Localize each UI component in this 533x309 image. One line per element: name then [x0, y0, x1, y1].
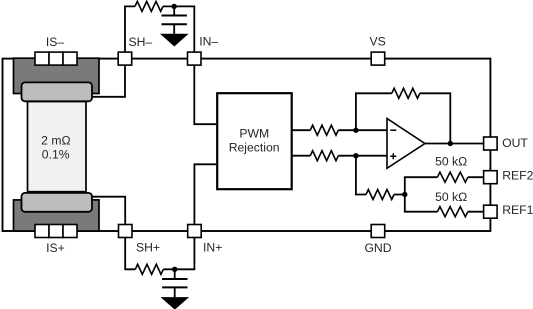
ground bottom filter — [162, 298, 188, 309]
wire IN+ pin to PWM block input — [194, 164, 216, 224]
pin label IS- — [46, 35, 65, 49]
junction node output — [448, 141, 453, 146]
svg-text:IN+: IN+ — [203, 240, 222, 254]
resistor R_sh- filter — [135, 1, 163, 11]
svg-text:50 kΩ: 50 kΩ — [435, 190, 467, 204]
svg-text:PWM: PWM — [239, 126, 269, 140]
junction node reference divider — [402, 192, 407, 197]
resistor 50 kOhm REF1 — [437, 207, 467, 217]
ground top filter — [161, 34, 187, 46]
junction node inverting input — [353, 128, 358, 133]
op-amp U2 — [387, 119, 425, 169]
wire R2 to op-amp non-inverting input — [338, 155, 387, 157]
device package outline — [3, 59, 491, 231]
pin OUT — [484, 137, 498, 150]
value label 50 kOhm REF1 — [435, 190, 467, 204]
pin IN+ — [188, 225, 202, 238]
pin label IS+ — [46, 241, 65, 255]
wire SH+ kelvin sense from shunt bottom bar to SH+ pin — [92, 197, 126, 238]
wire REF2 resistor to REF2 pin — [468, 176, 484, 178]
wire SH- kelvin sense from shunt top bar to SH- pin — [92, 52, 126, 97]
shunt top clamp — [14, 58, 100, 93]
pin IN- — [188, 52, 202, 65]
svg-text:GND: GND — [364, 241, 391, 255]
value label 50 kOhm REF2 — [435, 155, 467, 169]
capacitor C_in- — [162, 6, 187, 34]
svg-text:REF1: REF1 — [502, 203, 533, 217]
pin label SH+ — [136, 240, 160, 254]
pin SH- — [118, 52, 132, 65]
pin label OUT — [502, 136, 528, 150]
junction node non-inverting input — [353, 153, 358, 158]
pin IS- (three pads) — [35, 52, 77, 65]
pin IS+ (three pads) — [35, 225, 77, 238]
svg-text:IS+: IS+ — [46, 241, 65, 255]
pin label VS — [369, 34, 385, 48]
junction node top filter — [172, 4, 177, 9]
svg-text:IN–: IN– — [199, 35, 218, 49]
pin GND — [371, 225, 385, 238]
resistor input R2 (plus path) — [310, 151, 338, 161]
pin label IN+ — [203, 240, 222, 254]
pin label IN- — [199, 35, 218, 49]
wire R1 to op-amp inverting input — [338, 129, 387, 131]
pin label REF2 — [502, 169, 533, 183]
pin label GND — [364, 241, 391, 255]
svg-text:REF2: REF2 — [502, 169, 533, 183]
wire feedback to output node — [420, 93, 451, 143]
wire PWM output top to input resistor — [292, 129, 310, 131]
wire non-inverting input down to reference divider — [356, 156, 366, 195]
pin REF2 — [484, 171, 498, 184]
svg-text:0.1%: 0.1% — [42, 148, 70, 162]
wire feedback left rise — [356, 93, 392, 130]
wire divider node to REF2 resistor — [405, 177, 438, 194]
shunt top terminal bar — [22, 82, 93, 101]
wire PWM output bottom to input resistor — [292, 155, 310, 157]
svg-text:2 mΩ: 2 mΩ — [41, 133, 70, 147]
svg-text:50 kΩ: 50 kΩ — [435, 155, 467, 169]
wire filter resistor to IN- pin — [163, 6, 194, 52]
wire IN- pin to PWM block input — [194, 65, 216, 124]
resistor 50 kOhm REF2 — [437, 172, 467, 182]
pin REF1 — [484, 205, 498, 218]
pin SH+ — [119, 225, 133, 238]
PWM Rejection block U1 — [217, 93, 292, 189]
wire op-amp output to OUT pin — [425, 143, 484, 145]
shunt resistor element body R_shunt 2 mOhm — [28, 102, 87, 192]
resistor reference input R3 — [366, 190, 394, 200]
shunt bottom terminal bar — [22, 193, 93, 212]
svg-text:Rejection: Rejection — [229, 141, 280, 155]
svg-text:SH–: SH– — [129, 35, 153, 49]
wire divider node to REF1 resistor — [405, 195, 438, 212]
resistor feedback Rf — [392, 88, 420, 98]
junction node bottom filter — [172, 267, 177, 272]
svg-text:SH+: SH+ — [136, 240, 160, 254]
svg-text:VS: VS — [369, 34, 385, 48]
capacitor C_in+ — [162, 269, 187, 297]
wire SH- pin up to filter resistor — [125, 6, 135, 52]
wire SH+ pin down to filter resistor — [125, 237, 135, 269]
resistor input R1 (minus path) — [310, 125, 338, 135]
resistor R_sh+ filter — [135, 264, 163, 274]
svg-text:IS–: IS– — [46, 35, 65, 49]
wire REF1 resistor to REF1 pin — [468, 211, 484, 213]
wire filter resistor to IN+ pin — [163, 237, 194, 269]
pin label REF1 — [502, 203, 533, 217]
pin VS — [371, 52, 385, 65]
svg-text:OUT: OUT — [502, 136, 528, 150]
pin label SH- — [129, 35, 153, 49]
wire R3 to divider node — [394, 194, 405, 196]
shunt bottom clamp — [14, 200, 100, 231]
value label 2 mOhm 0.1% — [41, 133, 70, 161]
